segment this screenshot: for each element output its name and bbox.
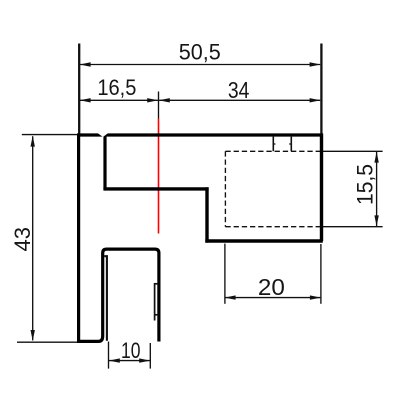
svg-text:16,5: 16,5	[97, 75, 136, 100]
svg-text:34: 34	[228, 77, 250, 103]
svg-text:43: 43	[10, 227, 35, 252]
svg-text:15,5: 15,5	[352, 164, 377, 205]
svg-text:20: 20	[258, 274, 285, 300]
svg-text:10: 10	[121, 338, 141, 363]
svg-text:50,5: 50,5	[179, 39, 221, 64]
